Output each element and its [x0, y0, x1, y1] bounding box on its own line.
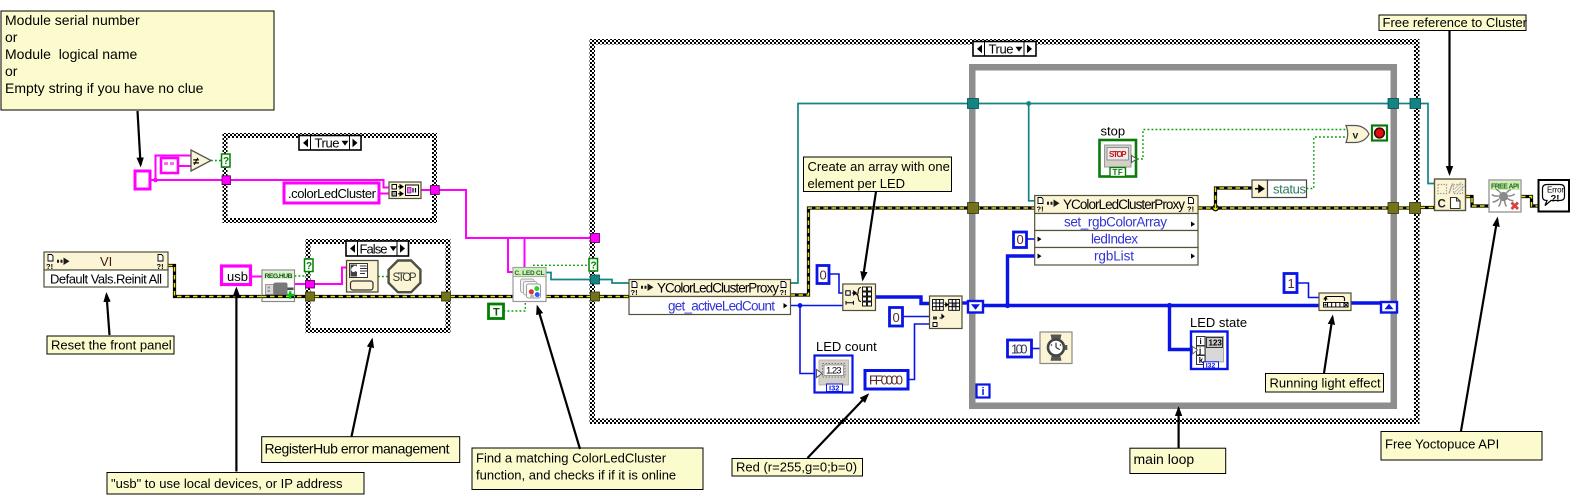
svg-text:or: or — [5, 63, 18, 79]
replace array subset node — [930, 296, 963, 329]
tunnel magenta outer case — [591, 234, 600, 243]
svg-text:get_activeLedCount: get_activeLedCount — [668, 299, 775, 314]
arrow running light to rotate — [1324, 317, 1333, 373]
wire 0 to init array element — [829, 274, 843, 293]
svg-text:True: True — [315, 136, 340, 151]
svg-text:FREE API: FREE API — [1491, 183, 1519, 190]
wire find-function isOnline to outer case selector — [533, 264, 590, 266]
svg-text:?!: ?! — [46, 262, 53, 271]
label reset front panel — [47, 336, 174, 354]
svg-text:?!: ?! — [1187, 205, 1194, 214]
arrow free reference to close node — [1448, 31, 1450, 174]
svg-text:TF: TF — [1113, 168, 1124, 177]
arrow create array to init node — [863, 192, 876, 280]
junction teal — [1026, 101, 1031, 106]
svg-text:Create an array with one: Create an array with one — [808, 159, 950, 174]
label usb local devices — [107, 473, 364, 495]
arrow registerhub label to False structure — [352, 340, 373, 437]
wire teal down to proxy2 — [1029, 104, 1035, 201]
wire pink inside False to dialog — [315, 268, 347, 285]
label red r255 — [732, 459, 863, 477]
svg-text:?!: ?! — [157, 262, 164, 271]
svg-text:or: or — [5, 29, 18, 45]
wire 1 to rotate — [1297, 283, 1319, 298]
svg-text:i: i — [1200, 337, 1202, 346]
wire teal outside case to close reference — [1421, 104, 1435, 184]
label main loop — [1130, 448, 1226, 473]
svg-text:Empty string if you have no cl: Empty string if you have no clue — [5, 80, 204, 96]
string control terminal — [135, 171, 150, 189]
register hub plus glyph — [287, 291, 295, 299]
or gate — [1346, 126, 1369, 143]
svg-text:RegisterHub error management: RegisterHub error management — [265, 441, 450, 457]
loop condition terminal — [1372, 126, 1387, 141]
one button dialog icon — [347, 261, 379, 293]
svg-text:j: j — [1198, 347, 1201, 356]
svg-text:status: status — [1273, 182, 1307, 197]
error wire between borders — [1399, 206, 1411, 209]
svg-text:function, and checks if if it: function, and checks if if it is online — [476, 468, 676, 483]
wire pink inside case1 — [231, 180, 389, 188]
selector terminal case1 — [222, 154, 231, 167]
wire branch to find-function top input — [524, 238, 526, 268]
numeric constant 0 (index) — [890, 308, 903, 327]
svg-text:stop: stop — [1101, 124, 1126, 139]
arrow free api label to node — [1461, 219, 1497, 431]
wire usb to RegisterHub — [251, 276, 263, 278]
svg-text:rgbList: rgbList — [1094, 249, 1134, 264]
svg-text:0: 0 — [1017, 232, 1024, 247]
wire branch to find-function name input — [508, 238, 514, 272]
tunnel olive False right — [442, 292, 451, 301]
invoke node VI Default Vals.Reinit All — [44, 252, 168, 287]
arrow note to terminal — [138, 111, 141, 165]
wire stop to or gate — [1137, 130, 1346, 160]
label create array — [804, 157, 952, 192]
svg-text:?: ? — [223, 156, 229, 167]
svg-text:Free Yoctopuce API: Free Yoctopuce API — [1385, 437, 1499, 452]
error out indicator — [1539, 180, 1570, 212]
numeric constant 0 (ledIndex) — [1014, 232, 1027, 248]
tunnel teal outer case — [591, 275, 600, 284]
junction blue — [798, 303, 803, 308]
label free reference to cluster — [1379, 15, 1528, 31]
error wire proxy1 up and across to while loop — [791, 208, 1035, 295]
wire blue up to rgbList input — [1008, 256, 1035, 306]
tunnel olive False left — [306, 292, 315, 301]
svg-text:I32: I32 — [1206, 362, 1216, 369]
svg-text:STOP: STOP — [393, 272, 417, 284]
svg-text:LED count: LED count — [816, 339, 877, 354]
free api node — [1489, 180, 1521, 212]
numeric constant 1 — [1284, 274, 1297, 293]
error wire free api to error out — [1521, 197, 1539, 207]
outer case selector label True — [973, 42, 1036, 57]
while loop (main loop) gray border — [972, 67, 1394, 406]
label free yoctopuce api — [1381, 432, 1542, 461]
numeric constant FF0000 — [865, 371, 908, 390]
tunnel olive case right — [1410, 203, 1421, 214]
error wire over RegisterHub — [262, 295, 295, 298]
svg-text:REG.HUB: REG.HUB — [265, 273, 293, 280]
tunnel magenta case1 out — [431, 186, 440, 195]
error wire case to close reference — [1421, 206, 1435, 209]
wire concat to tunnel — [421, 189, 439, 191]
wire rotate out to right shift register — [1351, 301, 1381, 304]
stop button terminal — [1100, 140, 1137, 177]
svg-text:True: True — [989, 42, 1014, 57]
error wire VI to False structure — [168, 266, 306, 297]
wire dialog to stop sign — [378, 276, 389, 278]
svg-text:"usb" to use local devices, or: "usb" to use local devices, or IP addres… — [111, 476, 343, 491]
svg-text:Free reference to Cluster: Free reference to Cluster — [1383, 15, 1528, 30]
label find matching colorledcluster — [472, 448, 703, 490]
wire replace to left shift register — [962, 301, 969, 304]
svg-text:LED state: LED state — [1190, 315, 1247, 330]
unbundle status node — [1252, 180, 1307, 198]
wire property node to concat — [379, 193, 389, 195]
svg-text:≠: ≠ — [193, 156, 199, 168]
wire 100 to wait — [1032, 348, 1041, 350]
wire status to or gate — [1307, 137, 1347, 189]
wire teal between borders — [1399, 103, 1411, 105]
arrow main loop to border — [1177, 409, 1179, 449]
close reference node — [1435, 179, 1466, 211]
label registerhub error management — [262, 437, 460, 463]
svg-text:?!: ?! — [780, 288, 787, 297]
left shift register — [968, 301, 983, 313]
comment note module serial — [1, 11, 274, 110]
svg-text:T: T — [493, 307, 500, 319]
tunnel olive loop left — [968, 203, 979, 214]
wire 0 to ledIndex — [1027, 238, 1035, 240]
svg-text:VI: VI — [100, 254, 112, 269]
empty string constant — [161, 158, 178, 173]
wire find-function teal out to tunnel — [545, 273, 591, 280]
svg-text:?!: ?! — [1037, 205, 1044, 214]
svg-text:i: i — [982, 386, 985, 398]
tunnel olive loop right — [1388, 203, 1399, 214]
arrow reset to VI node — [107, 295, 110, 336]
stop sign icon — [389, 261, 421, 293]
wire branch up to not-equal — [156, 156, 192, 181]
svg-text:element per LED: element per LED — [808, 176, 906, 191]
tunnel teal loop right — [1388, 99, 1399, 109]
not-equal node — [191, 150, 211, 171]
wire 0 to replace index — [903, 316, 930, 318]
boolean True constant — [489, 304, 504, 319]
numeric constant 0 (element) — [817, 266, 829, 284]
arrow find label to icon — [538, 307, 581, 449]
tunnel olive outer case left — [591, 292, 600, 301]
svg-text:0: 0 — [893, 310, 900, 325]
selector terminal outer case — [589, 259, 598, 272]
svg-text:Find a matching ColorLedCluste: Find a matching ColorLedCluster — [476, 451, 667, 466]
svg-text:YColorLedClusterProxy: YColorLedClusterProxy — [1063, 197, 1185, 212]
svg-text:?: ? — [306, 261, 312, 272]
svg-text:False: False — [360, 241, 388, 256]
tunnel teal loop left — [968, 99, 979, 109]
wire RegisterHub out to False tunnel — [295, 283, 307, 285]
wire blue trunk inside loop — [983, 304, 1319, 307]
proxy node 2 YColorLedClusterProxy — [1035, 196, 1198, 266]
RegisterHub node — [262, 270, 295, 302]
wire blue count to init array — [791, 305, 843, 307]
case structure 2 selector label False — [346, 241, 409, 256]
LED state indicator — [1191, 332, 1228, 370]
tunnel magenta case1 in — [222, 176, 231, 185]
svg-text:v: v — [1353, 130, 1359, 142]
arrow usb label to constant — [235, 289, 237, 472]
proxy node 1 YColorLedClusterProxy — [629, 280, 791, 315]
wire teal proxy1 up and across to while loop — [791, 104, 1394, 284]
concat icon — [389, 182, 421, 199]
svg-text:?: ? — [591, 261, 597, 272]
svg-text:usb: usb — [227, 269, 248, 284]
tunnel magenta False — [306, 281, 315, 289]
iteration terminal i — [977, 385, 990, 399]
wire blue down to LED state — [1170, 306, 1193, 350]
initialize array node — [843, 284, 876, 311]
wire FF0000 to replace element — [908, 324, 930, 380]
error wire inside case to proxy node 1 — [600, 295, 630, 298]
usb string constant — [222, 266, 251, 285]
rotate 1d array node — [1319, 293, 1351, 311]
junction blue rgbList — [1005, 303, 1010, 308]
wire string terminal to case1 tunnel — [150, 179, 223, 181]
svg-text:STOP: STOP — [1109, 150, 1127, 159]
arrow red label to FF0000 — [808, 395, 868, 458]
svg-text:set_rgbColorArray: set_rgbColorArray — [1064, 215, 1167, 230]
LED count indicator — [815, 356, 853, 393]
tunnel teal case right — [1410, 99, 1421, 109]
selector terminal False — [305, 259, 314, 272]
error wire proxy2 out to border — [1198, 206, 1393, 209]
svg-text:C. LED CL: C. LED CL — [515, 270, 545, 277]
property node .colorLedCluster — [284, 183, 379, 203]
svg-text:Module logical name: Module logical name — [5, 46, 138, 62]
right shift register — [1381, 302, 1397, 313]
svg-text:I32: I32 — [829, 384, 839, 393]
svg-text:?!: ?! — [1551, 194, 1560, 205]
svg-text:YColorLedClusterProxy: YColorLedClusterProxy — [657, 281, 779, 296]
case structure 2 (False) border — [306, 239, 451, 333]
label running light effect — [1266, 374, 1384, 393]
error wire branch up to status unbundle — [1216, 188, 1253, 208]
error junction — [1213, 205, 1219, 211]
error wire False structure to outer case — [451, 295, 592, 298]
wait ms icon — [1040, 332, 1072, 364]
find ColorLedCluster icon — [513, 268, 546, 302]
outer case structure (True) border — [590, 39, 1420, 424]
wire teal inside case to proxy node 1 — [600, 280, 630, 284]
svg-text:100: 100 — [1011, 342, 1028, 357]
wire not-equal to case1 selector — [211, 160, 223, 162]
svg-text:1: 1 — [1288, 276, 1295, 291]
svg-text:C: C — [1438, 199, 1446, 211]
junction blue LED state — [1167, 303, 1172, 308]
svg-text:Running light effect: Running light effect — [1270, 376, 1381, 391]
svg-text:1.23: 1.23 — [826, 366, 842, 377]
svg-text:?!: ?! — [631, 288, 638, 297]
svg-text:Red (r=255,g=0;b=0): Red (r=255,g=0;b=0) — [736, 460, 857, 475]
junction pink — [153, 178, 158, 183]
svg-text:main loop: main loop — [1134, 451, 1195, 467]
case structure 1 (True) border — [223, 133, 438, 223]
wire case1 output to outer case tunnel — [439, 190, 592, 238]
wire RegisterHub status to False selector — [295, 271, 310, 276]
svg-text:Default Vals.Reinit All: Default Vals.Reinit All — [50, 272, 162, 287]
svg-text:123: 123 — [1209, 339, 1223, 348]
svg-text:0: 0 — [820, 268, 827, 283]
error wire across False structure — [315, 295, 443, 298]
wire blue down to LED count — [800, 306, 817, 374]
svg-text:.colorLedCluster: .colorLedCluster — [288, 186, 377, 201]
error wire close reference to free api — [1466, 197, 1490, 207]
wire T constant to find-function — [504, 300, 526, 311]
case structure 1 selector label True — [299, 136, 361, 151]
svg-text:ledIndex: ledIndex — [1091, 232, 1138, 247]
svg-text:Module serial number: Module serial number — [5, 12, 140, 28]
wire empty string to not-equal — [178, 165, 191, 167]
numeric constant 100 — [1008, 340, 1032, 357]
svg-text:Reset the front panel: Reset the front panel — [51, 338, 172, 353]
wire array init to replace — [876, 297, 930, 304]
svg-text:FF0000: FF0000 — [869, 373, 903, 388]
